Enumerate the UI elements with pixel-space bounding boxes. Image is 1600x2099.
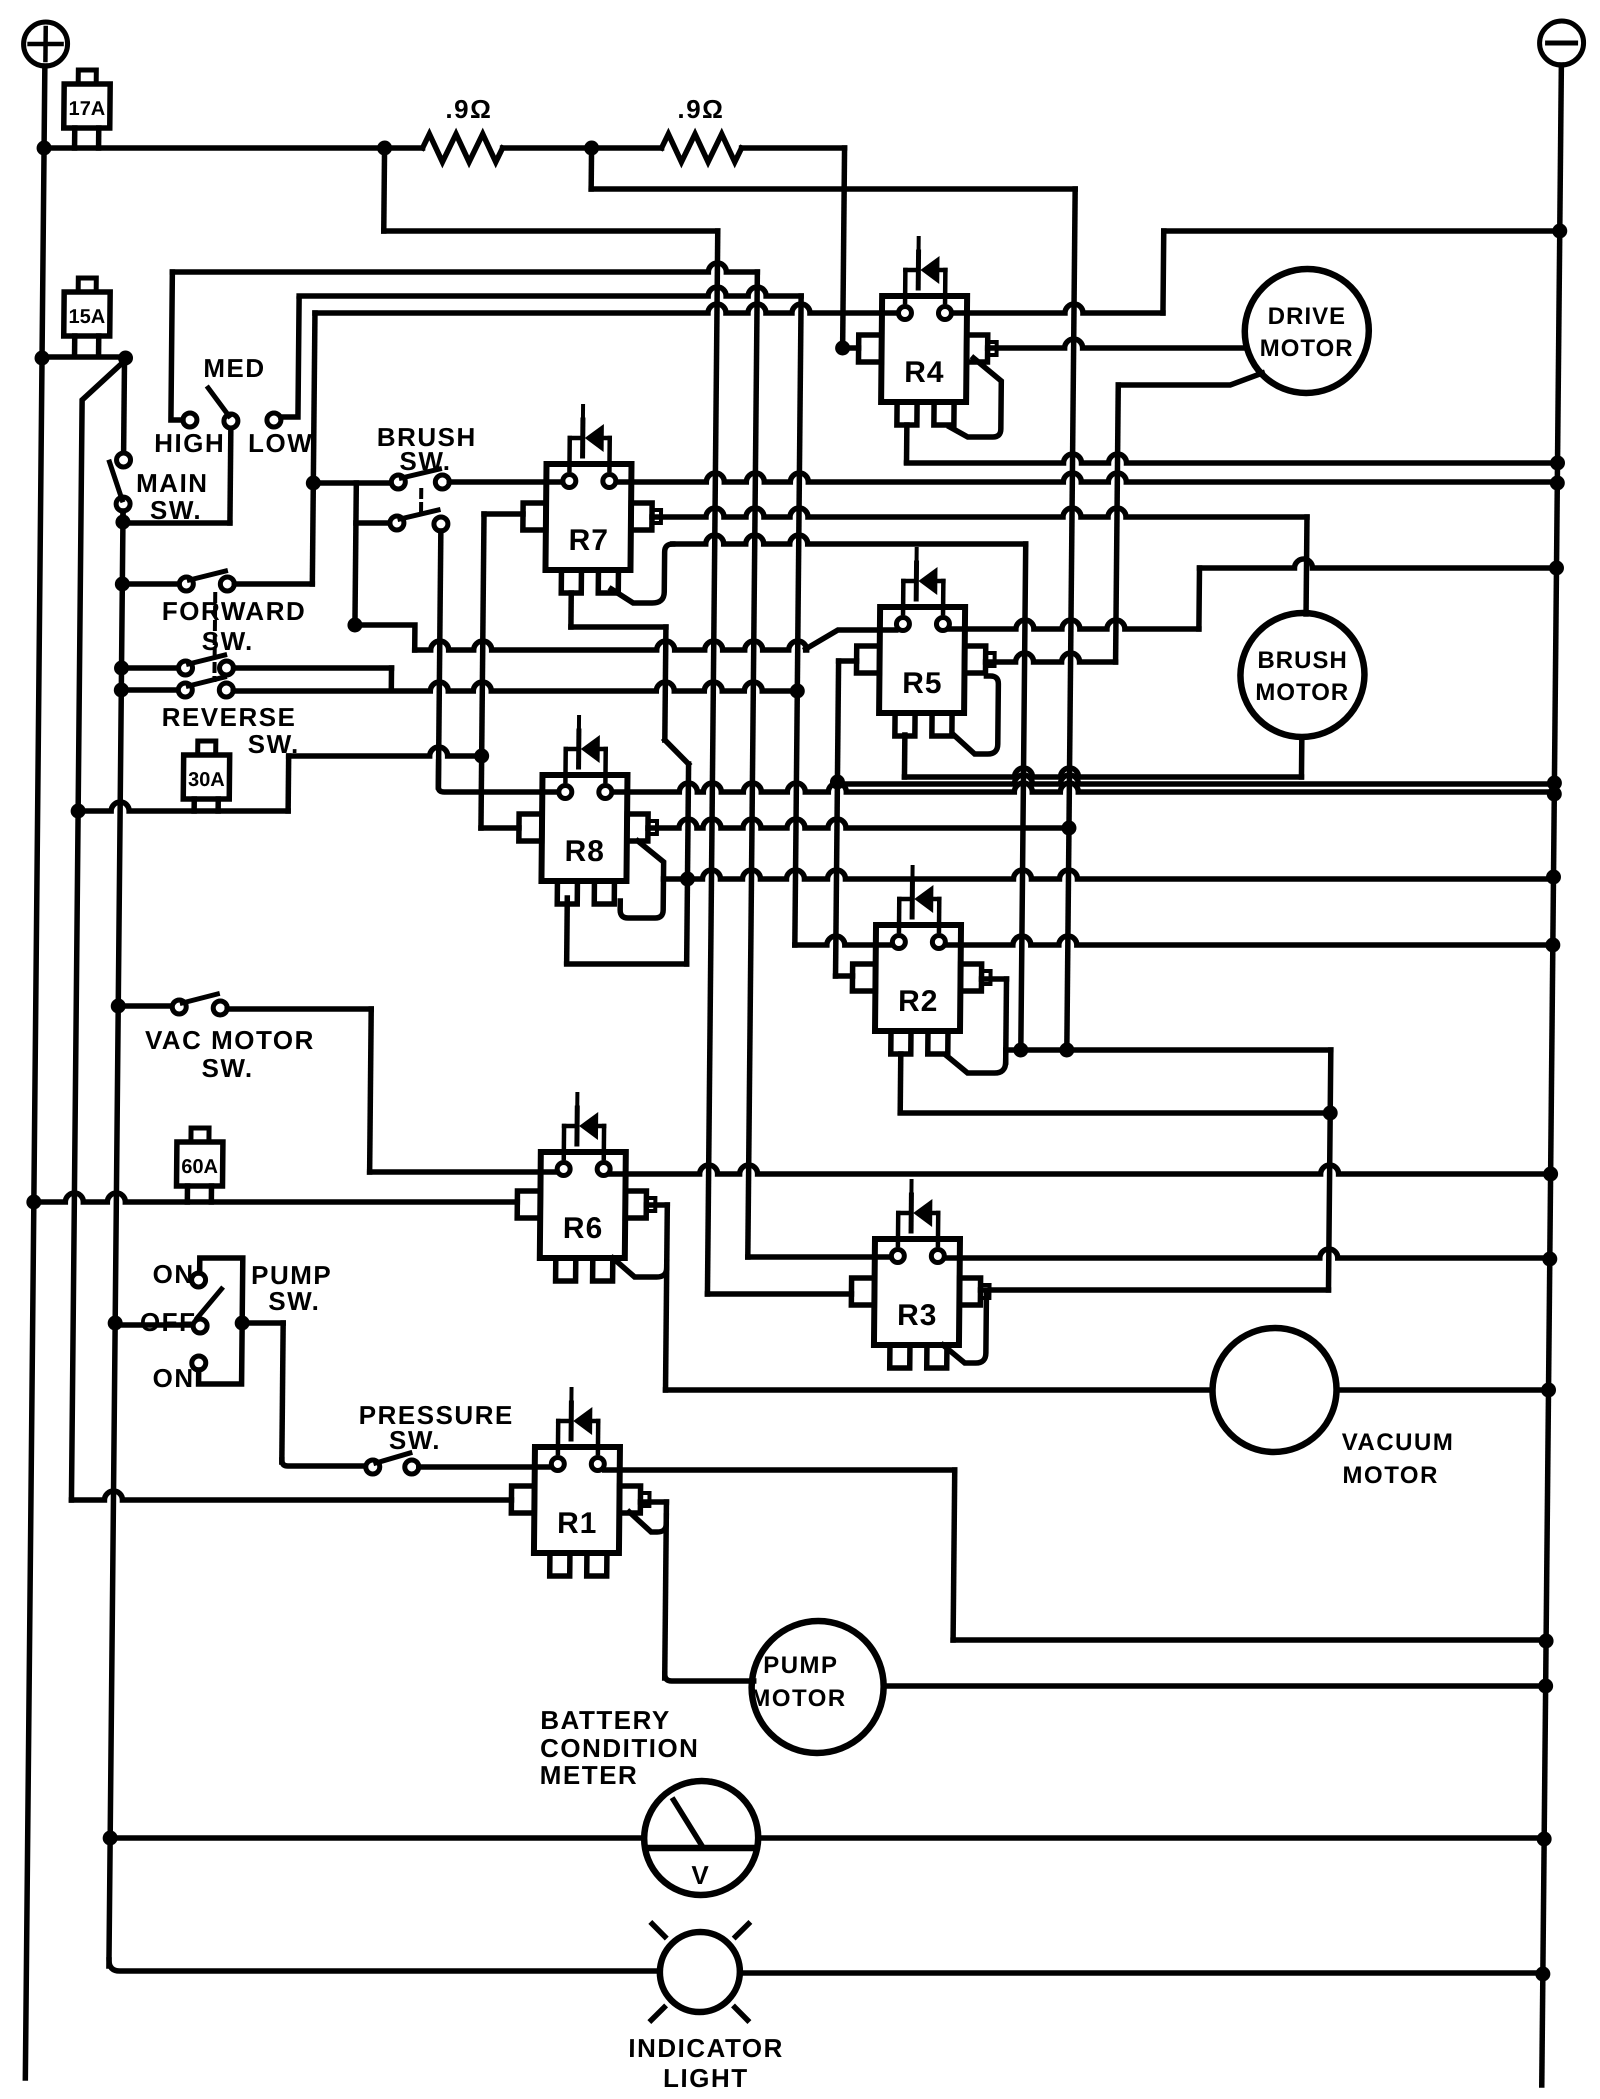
svg-text:15A: 15A [68,306,105,328]
svg-text:INDICATOR: INDICATOR [628,2033,784,2063]
svg-text:SW.: SW. [389,1425,441,1455]
svg-text:HIGH: HIGH [154,428,225,458]
svg-text:R8: R8 [564,835,605,868]
svg-text:SW.: SW. [202,626,254,656]
svg-text:60A: 60A [181,1156,218,1178]
svg-text:BRUSH: BRUSH [1257,647,1348,674]
svg-text:PUMP: PUMP [763,1652,839,1679]
svg-text:METER: METER [540,1760,639,1790]
svg-text:.9Ω: .9Ω [677,94,724,124]
svg-text:R3: R3 [897,1299,938,1332]
svg-text:MOTOR: MOTOR [1255,679,1349,706]
svg-text:R1: R1 [557,1507,598,1540]
svg-text:17A: 17A [68,98,105,120]
svg-text:MOTOR: MOTOR [1342,1462,1439,1489]
svg-text:SW.: SW. [268,1286,320,1316]
svg-text:SW.: SW. [248,729,300,759]
svg-text:ON: ON [152,1363,194,1393]
svg-text:REVERSE: REVERSE [162,702,297,732]
svg-text:MED: MED [203,353,266,383]
svg-text:SW.: SW. [150,495,202,525]
svg-text:MOTOR: MOTOR [1260,335,1354,362]
svg-text:SW.: SW. [399,446,451,476]
svg-text:FORWARD: FORWARD [162,596,307,626]
svg-text:MAIN: MAIN [136,468,209,498]
svg-text:MOTOR: MOTOR [750,1685,847,1712]
svg-text:R5: R5 [902,667,943,700]
svg-text:LIGHT: LIGHT [663,2063,749,2093]
svg-text:DRIVE: DRIVE [1268,303,1347,330]
svg-text:.9Ω: .9Ω [445,94,492,124]
svg-text:VAC MOTOR: VAC MOTOR [145,1025,315,1055]
svg-text:SW.: SW. [201,1053,253,1083]
svg-text:BATTERY: BATTERY [540,1705,671,1735]
svg-text:LOW: LOW [248,428,313,458]
svg-text:R7: R7 [568,524,609,557]
svg-text:R4: R4 [904,356,945,389]
svg-text:V: V [691,1860,710,1890]
svg-text:CONDITION: CONDITION [540,1733,700,1763]
svg-text:R6: R6 [563,1212,604,1245]
svg-text:VACUUM: VACUUM [1342,1429,1455,1456]
svg-text:30A: 30A [188,769,225,791]
svg-text:OFF: OFF [140,1307,197,1337]
svg-text:R2: R2 [898,985,939,1018]
svg-text:ON: ON [152,1259,194,1289]
